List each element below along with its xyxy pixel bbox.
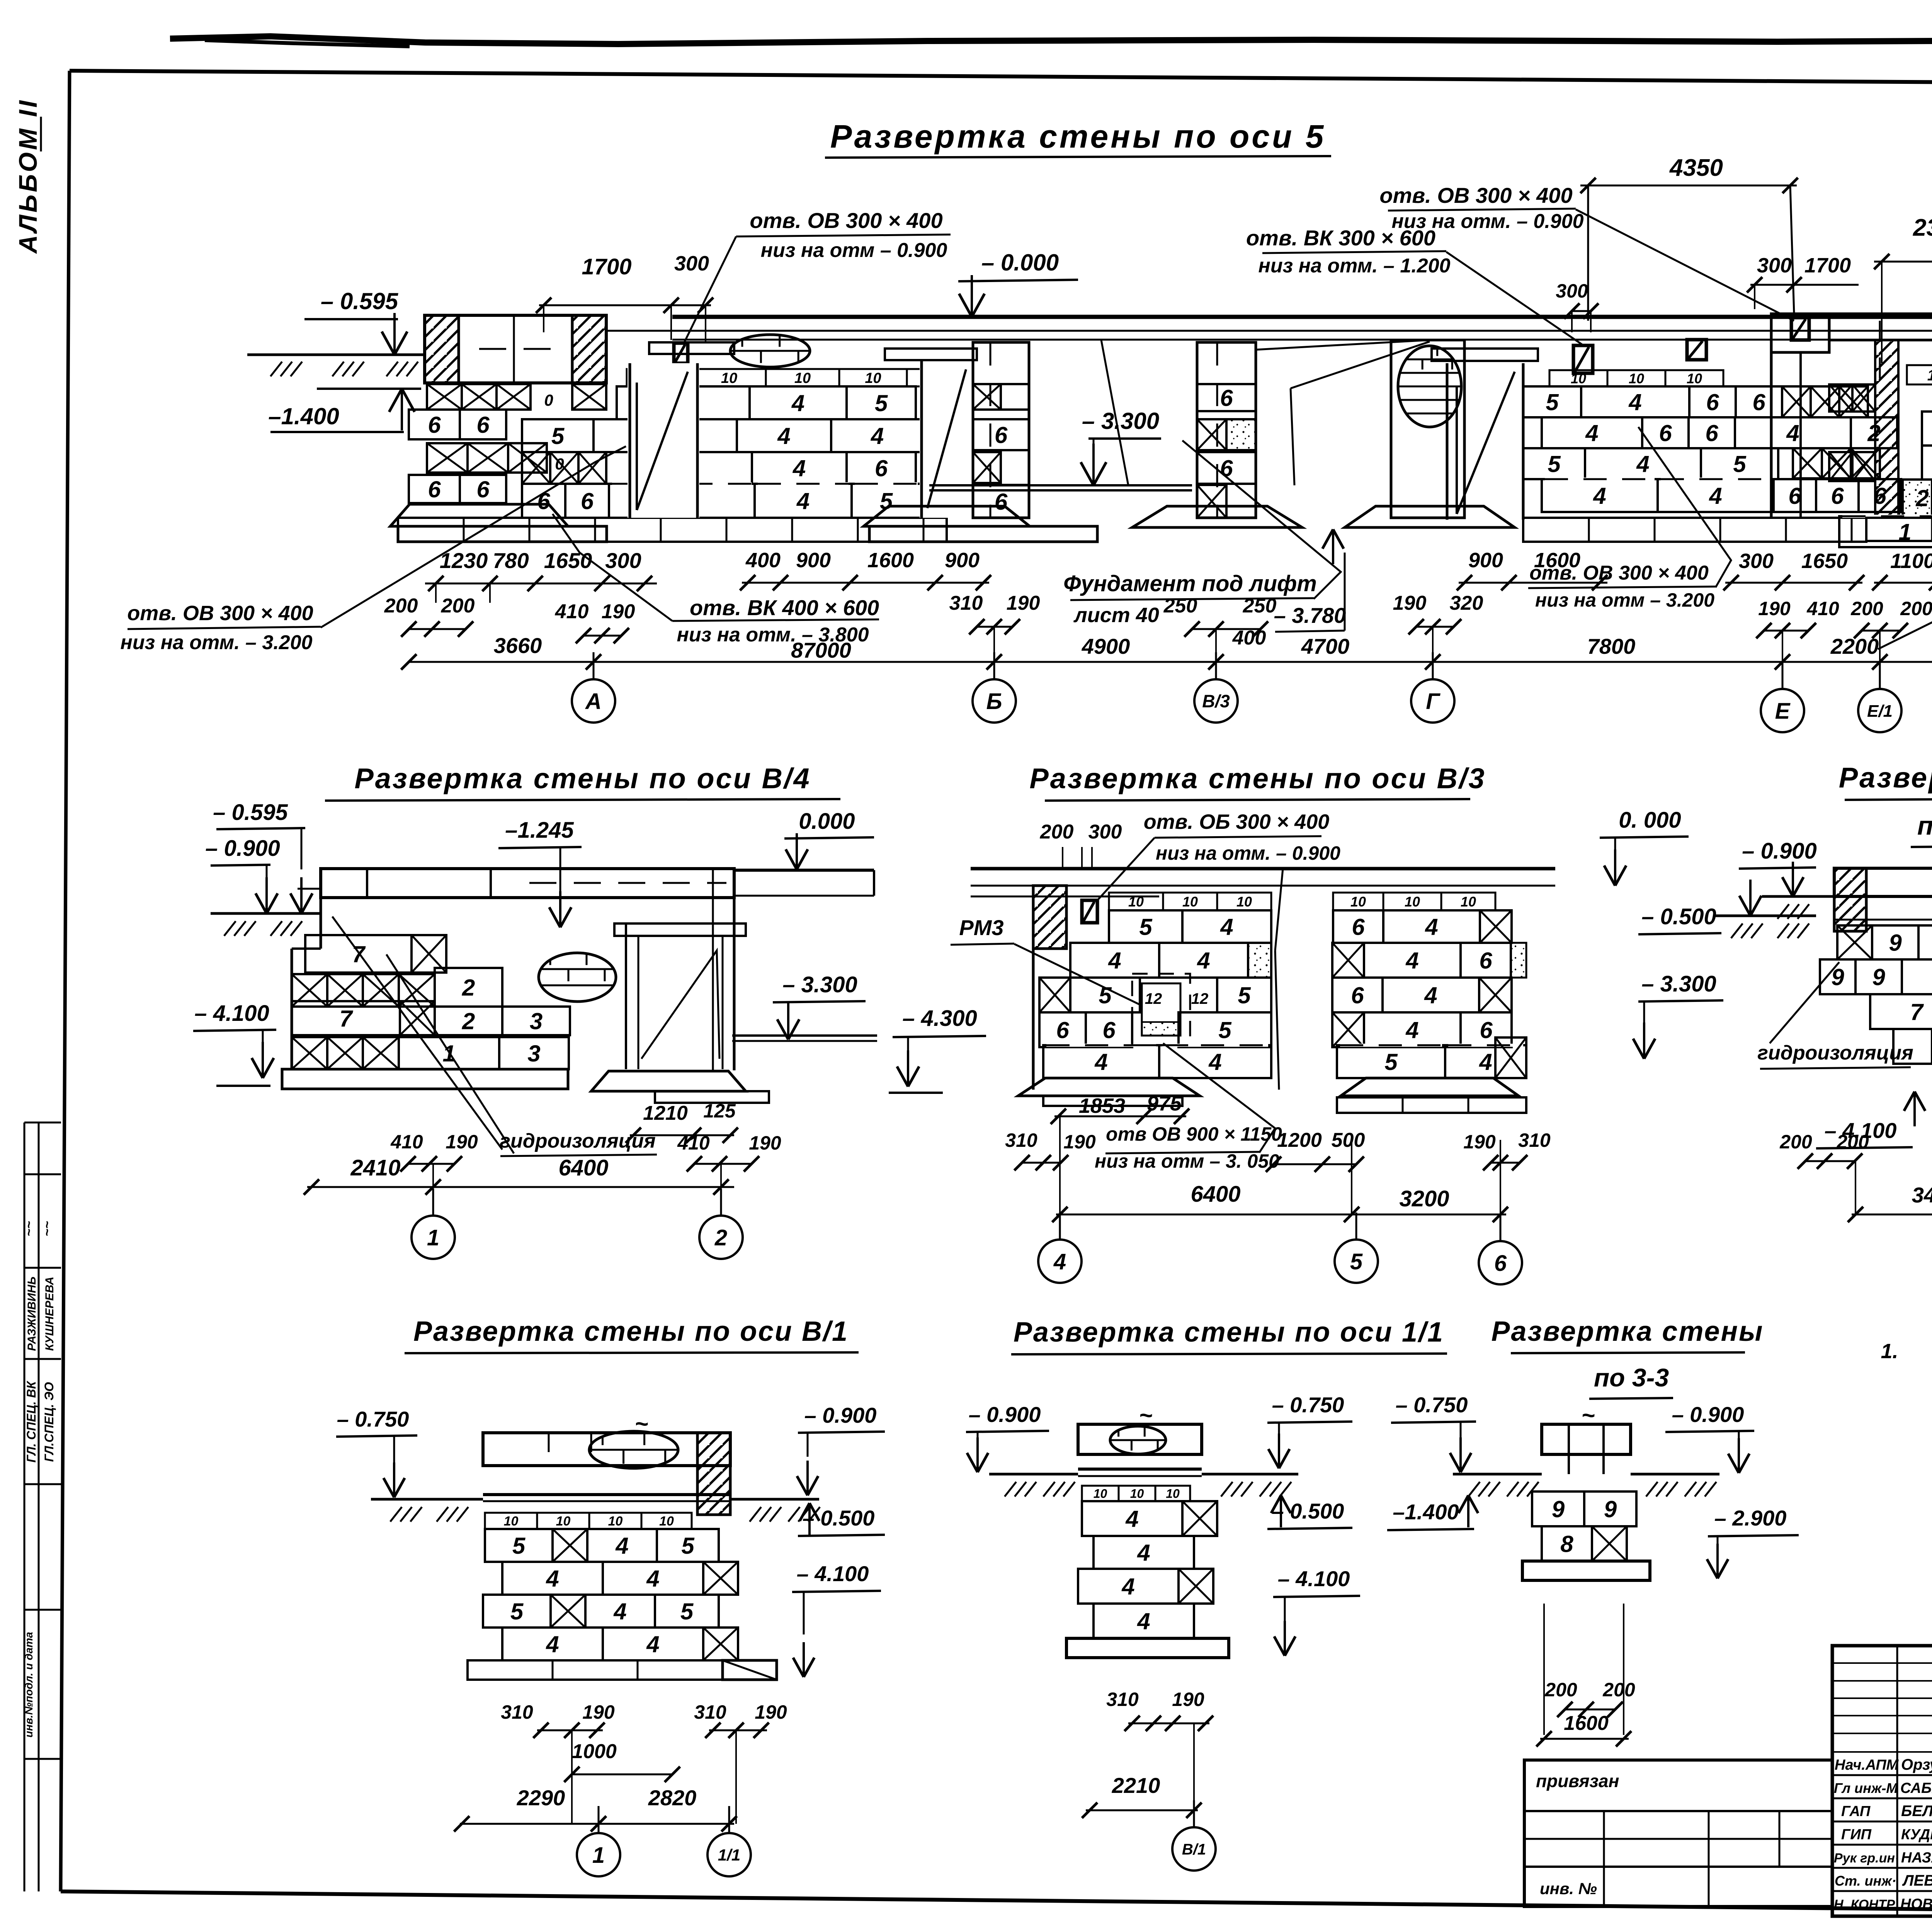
1-1 level -0.900 left arrow — [1782, 877, 1793, 896]
svg-text:5: 5 — [510, 1599, 524, 1624]
svg-text:отв. ОВ 300 × 400: отв. ОВ 300 × 400 — [1529, 562, 1709, 584]
В/3 left wall — [1033, 886, 1066, 949]
left wall footing — [390, 504, 568, 526]
sheet frame — [70, 71, 1932, 87]
svg-text:190: 190 — [582, 1701, 615, 1723]
svg-text:6: 6 — [1352, 914, 1365, 940]
svg-text:2410: 2410 — [350, 1155, 400, 1180]
svg-text:– 4.100: – 4.100 — [797, 1561, 869, 1586]
wall elevation axis5: left wall section top band — [425, 315, 606, 383]
svg-text:1100: 1100 — [1890, 549, 1932, 573]
svg-text:4: 4 — [1425, 914, 1438, 940]
svg-text:4: 4 — [1094, 1049, 1107, 1075]
svg-text:4: 4 — [1137, 1540, 1150, 1566]
svg-text:– 3.780: – 3.780 — [1274, 603, 1346, 628]
pier/wall at Е — [1771, 314, 1829, 352]
svg-text:КУДРЯВЦЕВА: КУДРЯВЦЕВА — [1901, 1827, 1932, 1843]
svg-text:4900: 4900 — [1082, 634, 1130, 658]
svg-text:4: 4 — [1479, 1049, 1492, 1075]
svg-text:2820: 2820 — [648, 1786, 697, 1810]
svg-text:привязан: привязан — [1536, 1771, 1619, 1791]
axis5 rows: segment Г-Е — [1549, 370, 1607, 386]
svg-text:ЛЕВИНА: ЛЕВИНА — [1902, 1872, 1932, 1889]
svg-text:4: 4 — [1197, 948, 1210, 974]
svg-text:4: 4 — [546, 1631, 559, 1657]
svg-text:Развертка стены по оси В/: Развертка стены по оси В/4 — [354, 762, 811, 794]
svg-text:1600: 1600 — [867, 549, 914, 572]
svg-text:4: 4 — [646, 1566, 659, 1592]
svg-text:4: 4 — [1053, 1249, 1066, 1274]
svg-text:4: 4 — [777, 423, 790, 449]
elevation slab band — [672, 315, 1932, 319]
svg-text:~~: ~~ — [40, 1221, 54, 1236]
svg-text:лист 40: лист 40 — [1073, 604, 1159, 627]
svg-text:4: 4 — [1208, 1049, 1221, 1075]
svg-text:НОВИКОВА: НОВИКОВА — [1900, 1896, 1932, 1912]
svg-text:Орзул: Орзул — [1901, 1756, 1932, 1773]
svg-text:10: 10 — [659, 1514, 674, 1529]
svg-text:300: 300 — [1556, 280, 1588, 302]
base brick strip A-B — [398, 518, 947, 542]
door opening D1 with leaf — [628, 363, 699, 518]
elevator pit area and -3.300 line — [929, 484, 1192, 486]
svg-text:6: 6 — [1056, 1017, 1069, 1043]
svg-text:4: 4 — [1628, 389, 1641, 415]
svg-text:–1.245: –1.245 — [505, 818, 574, 843]
В/3 РМ3 dashed box — [1132, 974, 1190, 1045]
svg-text:400: 400 — [745, 549, 781, 572]
svg-text:780: 780 — [493, 548, 529, 573]
axis circle 6 (В/3) — [1479, 1241, 1522, 1284]
svg-text:300: 300 — [674, 252, 709, 275]
1-1 top band — [1834, 868, 1932, 896]
svg-text:гидроизоляция: гидроизоляция — [500, 1130, 656, 1152]
svg-text:9: 9 — [1872, 964, 1885, 990]
svg-text:310: 310 — [694, 1701, 726, 1723]
svg-text:10: 10 — [504, 1514, 519, 1529]
svg-text:0. 000: 0. 000 — [1619, 808, 1681, 833]
svg-text:200: 200 — [384, 595, 418, 617]
svg-text:Развертка стены по оси В/: Развертка стены по оси В/1 — [413, 1316, 849, 1347]
svg-text:АЛЬБОМ II: АЛЬБОМ II — [14, 98, 42, 254]
svg-text:6: 6 — [1220, 385, 1233, 411]
svg-text:гидроизоляция: гидроизоляция — [1757, 1042, 1913, 1064]
svg-text:320: 320 — [1450, 592, 1483, 614]
svg-text:6: 6 — [428, 412, 441, 438]
ОВ holes on Г-Е span — [1573, 345, 1593, 373]
В/4 ground left — [211, 912, 321, 915]
svg-text:2200: 2200 — [1830, 634, 1879, 658]
svg-text:200: 200 — [1544, 1679, 1577, 1701]
svg-text:12: 12 — [1145, 990, 1162, 1007]
hatched pier at Е/1 — [1875, 340, 1898, 516]
В/3 left footing — [1018, 1078, 1200, 1096]
svg-text:низ на отм. – 3.200: низ на отм. – 3.200 — [120, 631, 312, 654]
svg-text:10: 10 — [608, 1514, 623, 1529]
svg-text:РАЗЖИВИНЬ: РАЗЖИВИНЬ — [26, 1277, 38, 1351]
svg-text:– 0.750: – 0.750 — [1272, 1393, 1344, 1417]
svg-text:4: 4 — [796, 488, 810, 514]
door opening D4 with leaf — [1446, 363, 1449, 520]
ground right of В/3 view — [1716, 915, 1816, 917]
svg-text:В/1: В/1 — [1182, 1841, 1206, 1858]
svg-text:0.000: 0.000 — [799, 809, 855, 834]
svg-text:5: 5 — [680, 1599, 694, 1624]
svg-text:300: 300 — [605, 548, 641, 573]
svg-text:400: 400 — [1232, 627, 1266, 649]
svg-text:по 1-1: по 1-1 — [1917, 811, 1932, 840]
3-3 ground — [1453, 1473, 1542, 1476]
svg-text:410: 410 — [1806, 598, 1839, 619]
svg-text:– 0.900: – 0.900 — [1742, 838, 1817, 864]
svg-text:7: 7 — [339, 1006, 353, 1032]
axis circle 2 (В/4) — [699, 1216, 743, 1259]
svg-text:~: ~ — [1139, 1402, 1152, 1428]
right section top band Е-Л — [1829, 314, 1932, 340]
svg-text:190: 190 — [1758, 598, 1791, 619]
title block: staff table outer — [1832, 1646, 1932, 1916]
svg-text:6: 6 — [1494, 1251, 1507, 1276]
svg-text:190: 190 — [749, 1132, 781, 1154]
svg-text:– 3.300: – 3.300 — [1082, 408, 1159, 434]
right section rows Е-Л — [1907, 365, 1932, 384]
axis circle Е/1 — [1858, 689, 1901, 732]
В/1 top band — [483, 1433, 730, 1466]
svg-text:– 0.595: – 0.595 — [321, 288, 399, 314]
scan artifact line at top edge — [170, 36, 1932, 44]
svg-text:~: ~ — [1581, 1402, 1595, 1428]
svg-text:– 0.500: – 0.500 — [1641, 904, 1716, 929]
svg-text:2315: 2315 — [1913, 214, 1932, 241]
svg-text:9: 9 — [1604, 1497, 1617, 1522]
svg-text:– 4.100: – 4.100 — [194, 1001, 269, 1026]
svg-text:Развертка стены: Развертка стены — [1491, 1316, 1764, 1347]
svg-text:10: 10 — [1128, 894, 1144, 910]
svg-text:ГИП: ГИП — [1841, 1827, 1872, 1843]
svg-text:– 0.595: – 0.595 — [213, 800, 288, 825]
axis circle 1/1 (В/1) — [707, 1833, 751, 1876]
svg-text:5: 5 — [1384, 1049, 1398, 1075]
svg-text:4: 4 — [791, 390, 804, 416]
svg-text:190: 190 — [1393, 592, 1427, 614]
svg-text:200: 200 — [1602, 1679, 1635, 1701]
svg-text:4: 4 — [1593, 483, 1606, 509]
svg-text:4: 4 — [1108, 948, 1121, 974]
В/4 wall left edge steps — [320, 898, 322, 949]
svg-text:310: 310 — [501, 1701, 533, 1723]
svg-text:9: 9 — [1889, 930, 1902, 956]
svg-text:Развертка стены по оси: Развертка стены по оси 5 — [830, 118, 1326, 155]
svg-text:5: 5 — [1238, 983, 1251, 1009]
В/4 footing strip — [282, 1069, 568, 1089]
svg-text:6: 6 — [1659, 420, 1672, 446]
svg-text:5: 5 — [1218, 1017, 1232, 1043]
svg-text:отв. ВК 400 × 600: отв. ВК 400 × 600 — [690, 595, 879, 620]
axis circle 5 (В/3) — [1335, 1240, 1378, 1283]
svg-text:Развертка стены: Развертка стены — [1839, 762, 1932, 794]
В/4 rows — [305, 935, 412, 973]
door opening D2 with leaf — [920, 361, 975, 518]
dashed axis at Е/1 wall top — [1879, 321, 1881, 383]
svg-text:5: 5 — [512, 1533, 526, 1559]
svg-text:– 0.900: – 0.900 — [205, 836, 280, 861]
svg-text:200: 200 — [1836, 1131, 1869, 1153]
svg-text:5: 5 — [1546, 389, 1559, 415]
svg-text:5: 5 — [681, 1533, 695, 1559]
svg-text:– 4.100: – 4.100 — [1278, 1566, 1350, 1591]
В/3 view slab band — [971, 867, 1555, 871]
svg-text:Г: Г — [1426, 689, 1440, 714]
capital at Г door — [1432, 349, 1538, 361]
svg-text:4: 4 — [1636, 451, 1649, 477]
3-3 rows — [1532, 1492, 1584, 1526]
svg-text:900: 900 — [1468, 549, 1503, 572]
svg-text:– 0.900: – 0.900 — [1672, 1402, 1744, 1427]
svg-text:4: 4 — [1220, 914, 1233, 940]
svg-text:6: 6 — [428, 476, 441, 502]
ground line left of elevation — [247, 354, 425, 356]
svg-text:190: 190 — [1063, 1131, 1096, 1153]
svg-text:6: 6 — [1351, 983, 1364, 1009]
svg-text:250: 250 — [1243, 595, 1277, 617]
1-1 гидроизоляция leader — [1770, 962, 1839, 1043]
svg-text:В/3: В/3 — [1202, 691, 1230, 711]
svg-text:190: 190 — [1463, 1131, 1496, 1153]
svg-text:1.: 1. — [1881, 1340, 1898, 1363]
svg-text:Е: Е — [1775, 699, 1791, 724]
svg-text:низ на отм – 3. 050: низ на отм – 3. 050 — [1095, 1150, 1279, 1172]
svg-text:200: 200 — [1850, 598, 1883, 619]
svg-text:2: 2 — [714, 1225, 727, 1250]
svg-text:2210: 2210 — [1112, 1773, 1160, 1798]
svg-text:– 3.300: – 3.300 — [1641, 971, 1716, 997]
svg-text:–1.400: –1.400 — [1393, 1500, 1459, 1524]
1/1 rows — [1082, 1486, 1119, 1501]
svg-text:5: 5 — [875, 390, 888, 416]
svg-text:САБЕННИКОВ: САБЕННИКОВ — [1900, 1780, 1932, 1796]
svg-text:2: 2 — [462, 1009, 475, 1034]
footing trapezoids under elevation — [864, 506, 1030, 526]
axis circle В/3 — [1194, 679, 1238, 723]
svg-text:8: 8 — [1560, 1531, 1573, 1557]
svg-text:10: 10 — [794, 370, 811, 386]
svg-text:310: 310 — [1106, 1689, 1139, 1710]
svg-text:9: 9 — [1552, 1497, 1565, 1522]
svg-text:отв. ОВ 300 × 400: отв. ОВ 300 × 400 — [750, 208, 942, 233]
svg-text:190: 190 — [1007, 592, 1040, 614]
axis circle Б — [973, 679, 1016, 723]
svg-text:– 0.750: – 0.750 — [1396, 1393, 1468, 1417]
svg-text:5: 5 — [1548, 451, 1561, 477]
svg-text:6: 6 — [1705, 420, 1718, 446]
svg-text:1: 1 — [592, 1843, 605, 1868]
svg-text:4: 4 — [1786, 420, 1799, 446]
svg-text:10: 10 — [1461, 894, 1476, 910]
svg-text:Развертка стены по оси В/3: Развертка стены по оси В/3 — [1029, 762, 1486, 794]
svg-text:975: 975 — [1147, 1092, 1182, 1115]
svg-text:6: 6 — [476, 412, 490, 438]
pier at axis В/3 — [1197, 342, 1256, 518]
svg-text:4: 4 — [1125, 1506, 1138, 1532]
svg-text:5: 5 — [1733, 451, 1747, 477]
svg-text:200: 200 — [1779, 1131, 1812, 1153]
svg-text:10: 10 — [556, 1514, 571, 1529]
svg-text:6: 6 — [1479, 948, 1492, 974]
svg-text:Б: Б — [986, 689, 1002, 714]
svg-text:– 0.900: – 0.900 — [969, 1402, 1041, 1427]
left margin stamp table — [24, 1122, 26, 1891]
svg-text:6: 6 — [995, 489, 1008, 515]
left wall section block rows — [427, 384, 462, 410]
svg-text:10: 10 — [1130, 1487, 1144, 1501]
svg-text:ГЛ. СПЕЦ. ВК: ГЛ. СПЕЦ. ВК — [24, 1381, 38, 1463]
В/3 slant break lines — [1275, 869, 1283, 951]
В/1 rows — [485, 1513, 537, 1529]
pier at axis Б — [973, 342, 1029, 518]
svg-text:310: 310 — [1005, 1129, 1037, 1151]
svg-text:А: А — [585, 689, 602, 714]
В/1 base — [468, 1660, 723, 1680]
axis circle Г — [1411, 679, 1454, 723]
svg-text:200: 200 — [1040, 821, 1074, 843]
svg-text:3200: 3200 — [1399, 1186, 1449, 1211]
svg-text:инв. №: инв. № — [1540, 1879, 1597, 1898]
svg-text:4: 4 — [1585, 420, 1598, 446]
svg-text:6: 6 — [875, 456, 888, 481]
svg-text:инв.№подл. и дата: инв.№подл. и дата — [23, 1632, 35, 1738]
svg-text:10: 10 — [1182, 894, 1198, 910]
lower dashed row Е-Л — [1839, 516, 1932, 547]
svg-text:1: 1 — [427, 1225, 439, 1250]
svg-text:4: 4 — [1709, 483, 1722, 509]
svg-text:900: 900 — [945, 549, 980, 572]
svg-text:3: 3 — [527, 1041, 540, 1066]
1/1 base — [1066, 1638, 1229, 1658]
capital at Б — [885, 349, 977, 360]
staff rows dividers — [1832, 1774, 1932, 1776]
svg-text:1210: 1210 — [643, 1102, 688, 1124]
svg-text:отв. ВК 300 × 600: отв. ВК 300 × 600 — [1246, 226, 1435, 250]
svg-text:– 3.300: – 3.300 — [782, 972, 857, 997]
svg-text:4: 4 — [646, 1631, 659, 1657]
svg-text:отв. ОВ 300 × 400: отв. ОВ 300 × 400 — [127, 602, 313, 625]
footing under Г — [1345, 506, 1515, 527]
В/3 right wall — [1333, 893, 1383, 910]
svg-text:– 0.500: – 0.500 — [1272, 1499, 1344, 1523]
svg-text:ГАП: ГАП — [1841, 1803, 1871, 1820]
svg-text:300: 300 — [1739, 549, 1774, 573]
svg-text:НАЗАРОВА: НАЗАРОВА — [1901, 1850, 1932, 1866]
svg-text:190: 190 — [602, 600, 635, 623]
svg-text:Гл инж-М: Гл инж-М — [1834, 1780, 1898, 1796]
svg-text:125: 125 — [703, 1100, 736, 1122]
svg-text:4700: 4700 — [1301, 634, 1350, 658]
svg-text:10: 10 — [1166, 1487, 1180, 1501]
svg-text:500: 500 — [1332, 1129, 1365, 1151]
base brick strip Г-Е — [1523, 518, 1866, 542]
svg-text:10: 10 — [1629, 371, 1644, 386]
svg-text:КУШНЕРЕВА: КУШНЕРЕВА — [43, 1277, 56, 1351]
svg-text:Ст. инж·: Ст. инж· — [1835, 1873, 1896, 1889]
svg-text:10: 10 — [1094, 1487, 1107, 1501]
svg-text:отв. ОВ 300 × 400: отв. ОВ 300 × 400 — [1379, 183, 1572, 207]
axis circle А — [572, 679, 615, 723]
svg-text:– 2.900: – 2.900 — [1714, 1506, 1787, 1530]
svg-text:3: 3 — [530, 1009, 543, 1034]
svg-text:6: 6 — [581, 488, 594, 514]
svg-text:низ на отм. – 1.200: низ на отм. – 1.200 — [1258, 255, 1450, 277]
svg-text:200: 200 — [1900, 598, 1932, 619]
svg-text:410: 410 — [390, 1131, 423, 1153]
svg-text:10: 10 — [1350, 894, 1366, 910]
svg-text:4: 4 — [871, 423, 884, 449]
svg-text:6: 6 — [995, 422, 1008, 448]
svg-text:БЕЛЬМАН·: БЕЛЬМАН· — [1901, 1803, 1932, 1820]
svg-text:Н. КОНТР.: Н. КОНТР. — [1834, 1897, 1897, 1912]
svg-text:– 0.750: – 0.750 — [337, 1407, 409, 1431]
svg-text:10: 10 — [1687, 371, 1702, 386]
svg-text:2290: 2290 — [517, 1786, 565, 1810]
axis circle В/1 (1/1 view) — [1172, 1827, 1216, 1871]
svg-text:– 0.900: – 0.900 — [804, 1403, 877, 1427]
svg-text:6: 6 — [1480, 1017, 1493, 1043]
svg-text:410: 410 — [677, 1132, 710, 1154]
svg-text:0: 0 — [544, 391, 553, 409]
axis circle 4 (В/3) — [1038, 1240, 1082, 1283]
svg-text:Нач.АПМ: Нач.АПМ — [1835, 1757, 1899, 1773]
main dimension line with axis ticks — [408, 661, 1932, 663]
1-1 ground — [1762, 895, 1834, 898]
svg-text:4: 4 — [1137, 1609, 1150, 1634]
svg-text:отв. ОБ 300 × 400: отв. ОБ 300 × 400 — [1144, 810, 1330, 833]
svg-text:10: 10 — [1236, 894, 1252, 910]
svg-text:12: 12 — [1191, 990, 1209, 1007]
svg-text:6: 6 — [1752, 389, 1765, 415]
svg-text:4350: 4350 — [1669, 155, 1723, 181]
svg-text:по 3-3: по 3-3 — [1594, 1363, 1669, 1392]
svg-text:низ на отм. – 0.900: низ на отм. – 0.900 — [1156, 842, 1340, 864]
1/1 top band — [1078, 1424, 1202, 1454]
В/1 ground lines — [371, 1498, 483, 1501]
axis circle 1 (В/4) — [412, 1216, 455, 1259]
svg-text:10: 10 — [721, 370, 737, 386]
svg-text:12: 12 — [1927, 367, 1932, 384]
svg-text:10: 10 — [1405, 894, 1420, 910]
svg-text:ГЛ.СПЕЦ. ЭО: ГЛ.СПЕЦ. ЭО — [42, 1382, 56, 1462]
svg-text:–1.400: –1.400 — [268, 403, 339, 429]
svg-text:Рук гр.ин·: Рук гр.ин· — [1834, 1851, 1899, 1866]
svg-text:6400: 6400 — [558, 1155, 608, 1180]
svg-text:1700: 1700 — [1804, 254, 1851, 277]
svg-text:1000: 1000 — [572, 1740, 617, 1763]
svg-text:6: 6 — [476, 476, 490, 502]
svg-text:4: 4 — [1405, 948, 1418, 974]
svg-text:200: 200 — [441, 595, 475, 617]
svg-text:87000: 87000 — [791, 638, 851, 662]
svg-text:5: 5 — [1350, 1249, 1363, 1274]
svg-text:6: 6 — [1706, 389, 1719, 415]
svg-text:300: 300 — [1088, 821, 1122, 843]
title block: left extension table — [1524, 1760, 1832, 1906]
svg-text:250: 250 — [1163, 595, 1197, 617]
svg-text:6: 6 — [1102, 1017, 1116, 1043]
svg-text:1600: 1600 — [1564, 1712, 1609, 1735]
В/4 top slab band — [321, 869, 734, 898]
svg-text:РМ3: РМ3 — [959, 915, 1003, 940]
svg-text:7: 7 — [1910, 999, 1924, 1025]
svg-text:отв ОВ 900 × 1150: отв ОВ 900 × 1150 — [1106, 1123, 1282, 1145]
svg-text:1230: 1230 — [440, 548, 488, 573]
